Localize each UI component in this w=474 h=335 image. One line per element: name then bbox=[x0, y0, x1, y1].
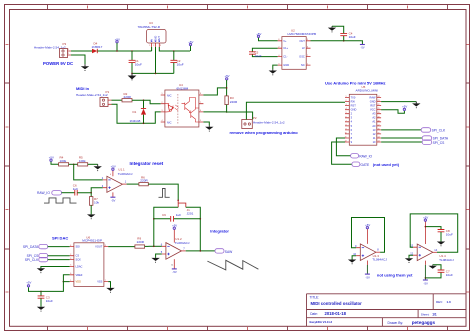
connector P3 bbox=[34, 42, 71, 57]
port SPI_CS bbox=[422, 140, 445, 145]
svg-text:TL084ACJ: TL084ACJ bbox=[118, 172, 133, 176]
svg-text:6: 6 bbox=[307, 46, 308, 48]
svg-text:V+: V+ bbox=[283, 39, 287, 43]
port RAW_IO arduino bbox=[351, 154, 373, 159]
transistor J1 bbox=[177, 200, 193, 216]
svg-text:+5V: +5V bbox=[26, 281, 31, 285]
wire R5 to ground bbox=[88, 163, 98, 165]
svg-text:22: 22 bbox=[378, 104, 380, 106]
ground C4 bbox=[328, 26, 336, 32]
svg-text:Date:: Date: bbox=[310, 312, 318, 316]
svg-text:4: 4 bbox=[346, 108, 347, 110]
svg-text:100k: 100k bbox=[60, 159, 67, 163]
svg-text:6: 6 bbox=[70, 273, 71, 275]
svg-text:7: 7 bbox=[307, 55, 308, 57]
svg-text:NC: NC bbox=[301, 63, 305, 67]
wire P1 pin1 to R2 bbox=[112, 99, 123, 101]
svg-text:POWER 9V DC: POWER 9V DC bbox=[43, 61, 73, 66]
op-amp U1.3 bbox=[353, 229, 387, 265]
op-amp U1.4 bbox=[410, 221, 454, 265]
wire D1 bottom stub bbox=[143, 115, 145, 124]
svg-text:Header-Male-2.54_1x2: Header-Male-2.54_1x2 bbox=[76, 93, 108, 97]
wire U2 OUT to -5V bbox=[311, 40, 362, 42]
power flag +5V regulator out bbox=[188, 40, 193, 51]
internal LED bbox=[165, 104, 169, 106]
svg-text:VDD: VDD bbox=[76, 280, 82, 284]
svg-text:4: 4 bbox=[278, 55, 279, 57]
power flag +5V U1.2 bbox=[172, 224, 177, 230]
svg-text:GND: GND bbox=[370, 100, 376, 104]
wire U3 pin1 down to input rail bbox=[151, 47, 153, 51]
svg-text:REV:: REV: bbox=[436, 300, 443, 304]
svg-text:2: 2 bbox=[346, 100, 347, 102]
svg-text:Header-Male-2.54_1x2: Header-Male-2.54_1x2 bbox=[34, 46, 66, 50]
svg-text:17: 17 bbox=[378, 124, 380, 126]
wire P1 pin2 to opto pin3 bbox=[112, 104, 161, 123]
wire U1.3 feedback loop bbox=[352, 218, 385, 253]
capacitor C4 bbox=[332, 26, 356, 41]
wire opto pin8 to +5V rail bbox=[203, 88, 226, 95]
wire D1 top stub bbox=[143, 100, 145, 108]
resistor R9 bbox=[135, 237, 145, 249]
svg-text:1/1: 1/1 bbox=[432, 313, 437, 317]
wire VREF to VDD junction bbox=[63, 275, 69, 282]
svg-text:1N5817: 1N5817 bbox=[92, 45, 103, 49]
svg-text:SDI: SDI bbox=[76, 245, 81, 249]
svg-text:GND: GND bbox=[283, 63, 289, 67]
wire C7 branch bbox=[425, 265, 441, 278]
wire RAW_IO to C6 bbox=[62, 192, 75, 194]
svg-text:7: 7 bbox=[200, 102, 201, 104]
capacitor C6 bbox=[73, 183, 78, 195]
power flag +5V U1.3 bbox=[365, 223, 370, 229]
svg-text:GATE: GATE bbox=[361, 163, 371, 167]
svg-text:2018-01-18: 2018-01-18 bbox=[325, 311, 347, 316]
svg-text:1N4148: 1N4148 bbox=[130, 119, 141, 123]
svg-text:3: 3 bbox=[278, 63, 279, 65]
wire arduino GND to ground bbox=[381, 101, 416, 103]
wire U1.4 feedback loop bbox=[410, 214, 458, 252]
waveform pulse glyph bbox=[159, 189, 170, 198]
svg-text:CS: CS bbox=[76, 254, 80, 258]
ground R7 bbox=[87, 214, 95, 219]
svg-text:Header-Male-2.54_1x2: Header-Male-2.54_1x2 bbox=[253, 120, 285, 124]
wire arduino pin11 to SPI_DATA bbox=[381, 137, 422, 139]
svg-text:6: 6 bbox=[346, 116, 347, 118]
svg-text:C1+: C1+ bbox=[283, 46, 288, 50]
ground U1.2 bbox=[151, 258, 159, 263]
svg-text:8: 8 bbox=[105, 245, 106, 247]
svg-text:RST: RST bbox=[370, 104, 376, 108]
resistor R7 bbox=[90, 193, 100, 215]
svg-text:TL084ACJ: TL084ACJ bbox=[372, 258, 387, 262]
ground arduino bbox=[412, 102, 420, 109]
wire R6 to J1 gate bbox=[148, 184, 178, 200]
svg-text:3: 3 bbox=[70, 258, 71, 260]
resistor R5 bbox=[78, 156, 88, 166]
svg-text:1: 1 bbox=[68, 49, 69, 51]
svg-text:N/C: N/C bbox=[167, 93, 172, 97]
ground opto bbox=[205, 125, 213, 131]
svg-text:A1: A1 bbox=[372, 120, 376, 124]
port SPI_CS dac bbox=[27, 254, 70, 259]
svg-text:SPI DAC: SPI DAC bbox=[52, 236, 68, 241]
wire U1.3 plus to ground bbox=[352, 256, 356, 260]
svg-text:15: 15 bbox=[378, 132, 380, 134]
dac U6 MCP4921 bbox=[70, 235, 109, 286]
svg-text:10uF: 10uF bbox=[446, 273, 453, 277]
waveform square wave glyph bbox=[44, 198, 77, 203]
svg-text:1: 1 bbox=[346, 96, 347, 98]
wire LDAC to ground bbox=[41, 267, 70, 269]
svg-text:8: 8 bbox=[200, 93, 201, 95]
ground LDAC bbox=[37, 268, 45, 273]
svg-text:not using them yet: not using them yet bbox=[377, 273, 413, 278]
svg-text:U1.1: U1.1 bbox=[118, 168, 125, 172]
svg-text:19: 19 bbox=[378, 116, 380, 118]
svg-text:10uF: 10uF bbox=[446, 232, 453, 236]
capacitor C2 bbox=[170, 50, 183, 73]
waveform sawtooth glyph bbox=[207, 260, 258, 270]
node D1 top bbox=[143, 99, 145, 101]
power flag -5V U1.1 bbox=[110, 197, 115, 202]
svg-text:1: 1 bbox=[162, 93, 163, 95]
power flag +5V arduino bbox=[402, 104, 407, 110]
svg-text:SAW: SAW bbox=[225, 250, 233, 254]
svg-text:petegaggs: petegaggs bbox=[412, 320, 436, 325]
wire arduino pin10 to SPI_CS bbox=[381, 141, 422, 143]
svg-text:SPI_CLK: SPI_CLK bbox=[25, 258, 39, 262]
svg-text:10uF: 10uF bbox=[255, 54, 262, 58]
svg-text:TL084ACJ: TL084ACJ bbox=[175, 241, 190, 245]
wire R4 to R5 bbox=[69, 163, 78, 165]
svg-text:8: 8 bbox=[346, 124, 347, 126]
svg-text:220R: 220R bbox=[137, 240, 145, 244]
svg-text:4: 4 bbox=[110, 174, 111, 176]
svg-text:2: 2 bbox=[68, 53, 69, 55]
wire U1.4 plus to ground bbox=[409, 255, 413, 258]
wire arduino pin9 to GATE bbox=[332, 142, 352, 164]
svg-text:J201: J201 bbox=[187, 212, 194, 216]
port SPI_CLK dac bbox=[25, 257, 70, 262]
svg-text:SPI_CLK: SPI_CLK bbox=[432, 129, 446, 133]
ground U1.4 bbox=[405, 258, 413, 263]
svg-text:C9: C9 bbox=[162, 213, 166, 217]
svg-text:Integrator: Integrator bbox=[210, 228, 229, 233]
wire opamp out to SAW bbox=[186, 250, 215, 252]
resistor R3 bbox=[225, 96, 238, 105]
svg-text:5: 5 bbox=[70, 265, 71, 267]
power flag +5V dac bbox=[26, 281, 31, 287]
svg-text:RXI: RXI bbox=[351, 100, 356, 104]
svg-text:-5V: -5V bbox=[111, 198, 115, 202]
svg-text:2: 2 bbox=[278, 46, 279, 48]
svg-text:5: 5 bbox=[200, 120, 201, 122]
svg-text:ARDUINO_MINI: ARDUINO_MINI bbox=[356, 89, 379, 93]
svg-text:D1: D1 bbox=[133, 110, 137, 114]
svg-text:78L05ML-T92-R: 78L05ML-T92-R bbox=[138, 25, 161, 29]
regulator U3 bbox=[138, 21, 167, 47]
svg-text:-5V: -5V bbox=[361, 47, 365, 50]
wire divider to opamp minus bbox=[74, 164, 103, 180]
svg-text:VSS: VSS bbox=[97, 280, 102, 284]
wire U2 GND pin bbox=[273, 65, 278, 69]
svg-text:4: 4 bbox=[70, 245, 71, 247]
wire VSS to ground bbox=[108, 282, 110, 288]
svg-text:EasyEDA V4.11.3: EasyEDA V4.11.3 bbox=[310, 320, 333, 324]
svg-text:10uF: 10uF bbox=[349, 35, 356, 39]
svg-text:3: 3 bbox=[162, 110, 163, 112]
ground U1.3 bbox=[348, 260, 356, 265]
svg-text:remove when programming arduin: remove when programming arduino bbox=[230, 130, 299, 135]
TITLE BLOCK bbox=[307, 294, 467, 327]
power flag +5V U2 bbox=[256, 32, 277, 41]
capacitor C9 bbox=[153, 213, 201, 222]
wire opto pin5 to ground bbox=[203, 122, 209, 125]
svg-text:3: 3 bbox=[160, 45, 161, 47]
wire feedback loop top bbox=[154, 207, 201, 251]
wire R9 to integrator input bbox=[145, 245, 149, 247]
resistor R4 bbox=[59, 156, 69, 166]
svg-text:OUT: OUT bbox=[299, 39, 305, 43]
svg-text:2: 2 bbox=[162, 102, 163, 104]
wire VDD to +5V bbox=[29, 282, 70, 292]
svg-text:14: 14 bbox=[378, 137, 380, 139]
capacitor C8 bbox=[438, 229, 453, 242]
diode D1 bbox=[130, 109, 147, 123]
svg-text:-5V: -5V bbox=[366, 275, 370, 279]
port SPI_DATA bbox=[422, 136, 449, 141]
svg-text:24: 24 bbox=[378, 96, 380, 98]
capacitor C7 bbox=[438, 270, 453, 278]
resistor R2 bbox=[122, 92, 132, 102]
ground bbox=[81, 64, 89, 71]
ground below C1 bbox=[128, 73, 137, 80]
svg-text:220R: 220R bbox=[230, 100, 238, 104]
wire arduino VCC to +5V bbox=[381, 110, 404, 114]
port GATE bbox=[352, 162, 370, 167]
wire U3 pin3 to +5V bbox=[159, 47, 190, 51]
wire R3 bottom to node bbox=[226, 105, 228, 112]
svg-text:Sheet:: Sheet: bbox=[421, 313, 430, 317]
svg-text:SCK: SCK bbox=[76, 258, 82, 262]
svg-text:Integrator reset: Integrator reset bbox=[130, 161, 164, 166]
svg-text:10uF: 10uF bbox=[177, 62, 184, 66]
svg-text:C1-: C1- bbox=[283, 55, 287, 59]
svg-text:RAW_IO: RAW_IO bbox=[359, 154, 372, 158]
svg-text:MIDI controlled oscillator: MIDI controlled oscillator bbox=[311, 301, 363, 306]
power flag +5V U1.4 bbox=[423, 216, 428, 222]
wire C6 to opamp plus bbox=[77, 188, 102, 193]
svg-text:5: 5 bbox=[346, 112, 347, 114]
svg-text:18: 18 bbox=[378, 120, 380, 122]
svg-text:220R: 220R bbox=[140, 179, 148, 183]
svg-text:10uF: 10uF bbox=[135, 62, 142, 66]
ground VSS bbox=[106, 288, 114, 293]
wire U3 pin2 down to cap rail bbox=[155, 47, 157, 73]
wire P3 pin1 to D4 bbox=[71, 50, 92, 52]
ground U2 bbox=[269, 69, 277, 75]
svg-text:TX0: TX0 bbox=[351, 95, 356, 99]
svg-text:VOUT: VOUT bbox=[95, 245, 103, 249]
svg-text:8: 8 bbox=[278, 39, 279, 41]
svg-text:10k: 10k bbox=[94, 201, 99, 205]
capacitor C5 bbox=[249, 48, 278, 58]
svg-text:N/C: N/C bbox=[167, 120, 172, 124]
svg-text:2: 2 bbox=[70, 254, 71, 256]
wire opto pin6 to P2 bbox=[203, 112, 252, 120]
wire opamp out to R6 bbox=[127, 183, 139, 185]
svg-text:LV: LV bbox=[302, 46, 305, 50]
resistor R6 bbox=[139, 175, 149, 185]
wire +5V branch to C8 bbox=[425, 227, 441, 230]
svg-text:-5V: -5V bbox=[172, 270, 176, 274]
svg-text:16: 16 bbox=[378, 128, 380, 130]
power flag -5V U1.2 bbox=[172, 269, 177, 274]
power flag +5V U1.1 bbox=[111, 165, 116, 171]
svg-text:LMC7660IMX/NOPB: LMC7660IMX/NOPB bbox=[288, 32, 317, 36]
mcu U5 ARDUINO_MINI bbox=[345, 85, 382, 145]
power flag +5V opto bbox=[224, 74, 229, 96]
op-amp U1.2 bbox=[161, 230, 190, 269]
port SAW bbox=[215, 249, 233, 254]
wire opamp plus to ground bbox=[156, 254, 162, 258]
svg-text:(not used yet): (not used yet) bbox=[373, 162, 400, 167]
power flag +5V divider bbox=[49, 155, 59, 164]
svg-text:TL084ACJ: TL084ACJ bbox=[439, 258, 454, 262]
svg-text:2: 2 bbox=[153, 45, 154, 47]
svg-text:A0: A0 bbox=[372, 124, 376, 128]
svg-text:RAW_IO: RAW_IO bbox=[37, 191, 50, 195]
svg-text:VREF: VREF bbox=[76, 273, 83, 277]
wire D4 to U3 input bbox=[97, 50, 151, 52]
wire P2 to arduino RXI bbox=[246, 102, 345, 119]
svg-text:6: 6 bbox=[200, 110, 201, 112]
connector P1 bbox=[76, 90, 112, 106]
svg-text:OSC: OSC bbox=[299, 55, 305, 59]
svg-text:LDAC: LDAC bbox=[76, 265, 83, 269]
optocoupler U4 bbox=[161, 83, 204, 127]
svg-text:Use Arduino Pro mini 5V 16MHz: Use Arduino Pro mini 5V 16MHz bbox=[325, 81, 386, 86]
connector P2 bbox=[242, 116, 285, 128]
svg-text:Drawn By:: Drawn By: bbox=[388, 321, 404, 325]
wire DAC input line to opamp minus bbox=[149, 245, 162, 247]
wire U1.4 power down to -5V bbox=[424, 265, 426, 280]
ground C3 bbox=[37, 307, 45, 312]
op IC U2 LMC7660 bbox=[278, 28, 316, 69]
svg-text:3: 3 bbox=[346, 104, 347, 106]
svg-text:+5V: +5V bbox=[402, 104, 407, 108]
svg-text:20: 20 bbox=[378, 112, 380, 114]
op-amp U1.1 bbox=[102, 168, 133, 197]
wire cap ground rail bbox=[132, 72, 174, 74]
wire P3 pin2 to ground bbox=[71, 55, 85, 64]
power flag -5V U1.4 bbox=[423, 280, 428, 285]
power flag -5V U1.3 bbox=[365, 265, 370, 279]
svg-text:SPI_DATA: SPI_DATA bbox=[23, 245, 39, 249]
ground divider bbox=[94, 164, 102, 171]
port SPI_DATA dac bbox=[23, 244, 70, 249]
svg-text:TITLE:: TITLE: bbox=[310, 295, 320, 299]
svg-text:9: 9 bbox=[346, 128, 347, 130]
svg-text:VCC: VCC bbox=[370, 108, 376, 112]
svg-text:4: 4 bbox=[162, 120, 163, 122]
capacitor C3 bbox=[38, 291, 53, 307]
svg-text:SPI_CS: SPI_CS bbox=[433, 141, 446, 145]
wire VOUT to R9 bbox=[108, 246, 135, 248]
internal transistors bbox=[182, 98, 190, 113]
svg-text:5: 5 bbox=[307, 39, 308, 41]
svg-text:7: 7 bbox=[105, 280, 106, 282]
svg-text:10uF: 10uF bbox=[46, 299, 53, 303]
svg-text:1.0: 1.0 bbox=[447, 300, 452, 304]
svg-text:1uF: 1uF bbox=[176, 213, 181, 217]
ground C8 bbox=[437, 242, 445, 247]
svg-text:7: 7 bbox=[346, 120, 347, 122]
wire arduino pin8 to RAW_IO bbox=[336, 138, 350, 156]
power flag -5V out bbox=[360, 41, 365, 50]
svg-text:1: 1 bbox=[70, 280, 71, 282]
svg-text:1: 1 bbox=[149, 45, 150, 47]
svg-text:RAW: RAW bbox=[370, 95, 377, 99]
svg-text:100k: 100k bbox=[79, 159, 86, 163]
svg-text:A2: A2 bbox=[372, 116, 376, 120]
wire R2 to opto pin2 bbox=[132, 100, 161, 104]
ground C7 bbox=[429, 265, 437, 269]
power flag +9V bbox=[115, 37, 120, 52]
svg-text:-5V: -5V bbox=[424, 281, 428, 285]
wire arduino pin13 to SPI_CLK bbox=[381, 129, 421, 131]
svg-text:RST: RST bbox=[351, 104, 357, 108]
svg-text:23: 23 bbox=[378, 100, 380, 102]
svg-text:13: 13 bbox=[378, 141, 380, 143]
svg-text:MCP4921-E/P: MCP4921-E/P bbox=[82, 239, 102, 243]
svg-text:MIDI in: MIDI in bbox=[76, 86, 90, 91]
svg-text:1: 1 bbox=[307, 63, 308, 65]
port RAW_IO input bbox=[37, 191, 62, 196]
svg-text:A3: A3 bbox=[372, 112, 376, 116]
diode D4 bbox=[92, 42, 103, 54]
port SPI_CLK bbox=[421, 128, 446, 133]
svg-text:10: 10 bbox=[345, 132, 347, 134]
svg-text:GND: GND bbox=[351, 108, 357, 112]
svg-text:21: 21 bbox=[378, 108, 380, 110]
capacitor C1 bbox=[129, 50, 142, 73]
